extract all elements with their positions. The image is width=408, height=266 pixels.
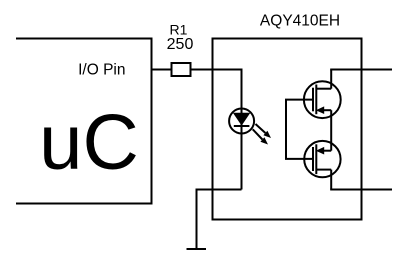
- resistor R1: [172, 63, 191, 76]
- wire LED cathode down: [241, 134, 243, 190]
- wire Q1 drain to upper pin: [330, 70, 332, 89]
- wire lower output pin: [330, 189, 392, 191]
- wire Q1 source to Q2 source: [330, 110, 332, 151]
- svg-text:R1: R1: [170, 22, 188, 38]
- svg-text:AQY410EH: AQY410EH: [260, 13, 340, 30]
- ground: [187, 248, 207, 250]
- svg-text:250: 250: [167, 36, 194, 53]
- transistor Q1 (top MOSFET): [304, 81, 341, 118]
- wire LED cathode to ground stem: [197, 189, 242, 191]
- LED light emission arrow 2: [253, 129, 268, 144]
- wire ground stem: [196, 189, 198, 250]
- LED light emission arrow 1: [256, 124, 272, 138]
- LED D1 (opto emitter): [229, 109, 254, 134]
- wire upper output pin: [330, 69, 392, 71]
- svg-text:uC: uC: [39, 98, 139, 186]
- svg-text:I/O Pin: I/O Pin: [78, 62, 125, 79]
- wire Q2 drain to lower pin: [330, 170, 332, 190]
- wire R1 to LED anode: [191, 70, 242, 109]
- transistor Q2 (bottom MOSFET, mirrored): [304, 141, 340, 177]
- wire I/O pin to R1: [152, 69, 173, 71]
- relay package box AQY410EH: [213, 39, 362, 220]
- gate bus wire between Q1 and Q2: [286, 100, 313, 159]
- microcontroller box U uC (open on left side): [16, 39, 152, 204]
